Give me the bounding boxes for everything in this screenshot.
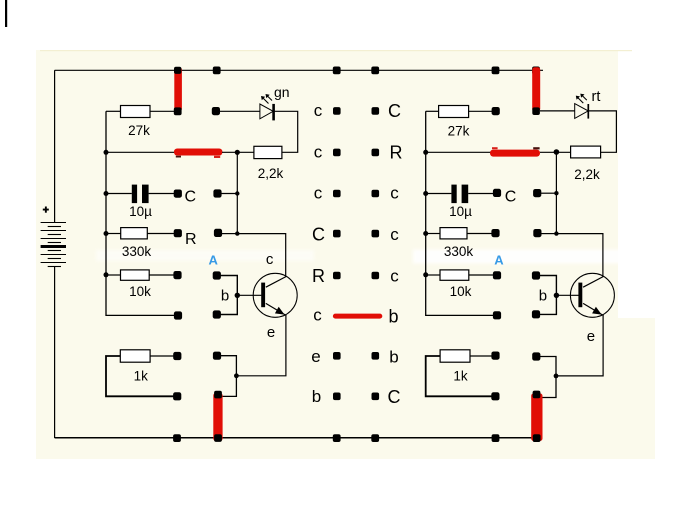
node dot row4 col B <box>214 229 222 237</box>
resistor 330k right lead <box>147 233 174 235</box>
capacitor 10u plates <box>132 185 137 204</box>
svg-text:c: c <box>390 267 399 286</box>
resistor 330k body <box>121 228 148 239</box>
svg-text:e: e <box>587 328 595 345</box>
svg-text:c: c <box>390 184 399 203</box>
node dot row6 col A (bus loop end) <box>174 311 182 319</box>
wire: left block bus (node A column feed) <box>106 111 174 315</box>
red jumper J7 (row8 to bottom rail right) <box>531 393 542 441</box>
node dot row1 col B <box>212 107 220 115</box>
transistor Q1 <box>253 273 297 317</box>
svg-text:rt: rt <box>592 89 601 105</box>
svg-text:10k: 10k <box>129 284 151 299</box>
red jumper J4 (middle row 6) <box>333 314 382 319</box>
junction node under 2,2k(2) left <box>554 149 560 155</box>
node dots on bottom rail <box>173 434 540 442</box>
svg-text:27k: 27k <box>448 124 470 139</box>
breadboard letters middle-right column <box>388 101 403 407</box>
LED D1 triangle <box>260 104 273 119</box>
junction row3 on column <box>235 191 239 195</box>
capacitor 10u left lead <box>106 193 132 195</box>
svg-text:c: c <box>314 143 323 162</box>
junction right bus row 3 <box>423 191 428 196</box>
junction on bus row 3 <box>104 191 109 196</box>
wire: 27k(2) left lead <box>426 110 439 112</box>
svg-text:27k: 27k <box>128 123 150 138</box>
LED D2 cathode bar <box>587 104 589 119</box>
wire: left rail upper (to battery +) <box>54 70 56 222</box>
node dot row3 col B <box>213 189 221 197</box>
resistor 10k left lead <box>106 274 121 276</box>
wire: row2 right bus to red jumper J6 <box>426 151 491 153</box>
wire: row4 col B to right junction column <box>541 233 556 235</box>
wire: LED rt cathode to drop <box>588 111 616 152</box>
node dot top of J7 <box>533 391 541 399</box>
wire: right junction column <box>555 152 557 233</box>
resistor 330k(2) left lead <box>426 233 440 235</box>
svg-text:c: c <box>314 184 323 203</box>
svg-text:10µ: 10µ <box>449 204 472 219</box>
svg-text:C: C <box>388 101 401 121</box>
junction right bus row 5 <box>423 272 428 277</box>
wire: row3 col B to right junction column <box>541 192 556 194</box>
node dot top of J1 <box>174 67 181 74</box>
resistor 330k(2) right lead <box>467 233 493 235</box>
wire: base lead Q1 <box>237 294 261 296</box>
LED D2 emission arrows <box>576 94 587 104</box>
svg-text:10k: 10k <box>450 284 472 299</box>
junction on bus row 4 <box>104 231 109 236</box>
junction base Q1 <box>235 293 240 298</box>
svg-text:330k: 330k <box>122 244 152 259</box>
svg-text:A: A <box>209 252 219 267</box>
LED D1 cathode bar <box>272 104 275 121</box>
red jumper J5 (top rail right) <box>532 67 540 111</box>
resistor 2,2k(2) body <box>571 146 601 158</box>
node dot bottom of J7 <box>533 434 541 442</box>
schematic paper area (ivory) <box>36 50 618 459</box>
capacitor 10u right lead <box>149 193 174 195</box>
wire: 27k left lead <box>106 110 121 112</box>
wire: base bracket Q2 <box>539 276 556 315</box>
wire: base bracket Q1 <box>220 276 237 315</box>
red jumper J6 (row 2 right horizontal) <box>490 150 540 157</box>
node dot row8 col A <box>173 392 181 400</box>
svg-text:330k: 330k <box>444 244 474 259</box>
node dot top of J3 <box>214 391 222 399</box>
LED D2 triangle <box>575 104 589 119</box>
resistor 330k(2) body <box>440 228 467 239</box>
node dot bottom of J1 <box>174 107 182 115</box>
svg-text:b: b <box>539 287 547 304</box>
node dots on top rail <box>213 67 540 75</box>
wire: 1k(2) right lead <box>470 355 494 357</box>
junction base Q2 <box>554 293 559 298</box>
node dot row4 col B right <box>533 229 541 237</box>
junction row4 right column <box>554 231 558 235</box>
svg-text:b: b <box>389 347 398 366</box>
LED D1 emission arrows <box>261 94 272 104</box>
node dot row5 col A right <box>493 271 501 279</box>
red jumper J2 (row 2 horizontal) <box>174 149 222 156</box>
svg-text:10µ: 10µ <box>129 204 152 219</box>
wire: 1k right lead <box>150 355 174 357</box>
node dot row3 col A <box>174 190 182 198</box>
wire: LED rt anode lead <box>540 110 575 112</box>
wire: LED cathode to drop <box>274 111 298 152</box>
wire: base lead Q2 <box>556 294 578 296</box>
resistor 330k left lead <box>106 233 121 235</box>
capacitor 10u(2) left lead <box>426 193 452 195</box>
wire: J2 to 2,2k left <box>222 151 254 153</box>
junction node under 2,2k left <box>235 150 240 155</box>
red jumper J3 (row8 to bottom rail) <box>213 393 222 441</box>
capacitor 10u(2) plates <box>451 185 456 204</box>
white erased band across row A <box>413 250 659 264</box>
node dot row5 col B <box>213 271 221 279</box>
svg-text:1k: 1k <box>453 369 468 384</box>
svg-text:C: C <box>505 189 517 206</box>
node dot row6 col A right <box>493 311 501 319</box>
J2 leg marks <box>176 156 181 158</box>
resistor 10k body <box>121 270 150 280</box>
svg-text:R: R <box>185 231 197 248</box>
svg-text:C: C <box>185 189 197 206</box>
svg-text:C: C <box>388 387 401 407</box>
junction on bus row 2 <box>104 150 109 155</box>
wire: LED gn anode lead <box>218 110 260 112</box>
svg-text:c: c <box>266 251 274 268</box>
wire: 27k(2) right lead <box>469 110 493 112</box>
svg-text:C: C <box>312 224 325 244</box>
resistor 27k body <box>121 106 151 118</box>
resistor 2,2k body <box>254 146 282 158</box>
junction on bus row 5 <box>104 272 109 277</box>
node dot row3 col A right <box>493 189 501 197</box>
svg-text:1k: 1k <box>134 369 149 384</box>
node dot row6 col B right <box>532 310 540 318</box>
wire: J6 to 2,2k(2) left <box>540 151 571 153</box>
battery B1 <box>41 223 66 267</box>
battery plus label <box>43 207 49 213</box>
svg-text:2,2k: 2,2k <box>258 166 284 181</box>
wire: row4 col B to junction column <box>222 233 237 235</box>
wire: collector feed Q2 <box>556 234 603 277</box>
red jumper J1 (top rail to row 1) <box>174 67 182 111</box>
svg-text:R: R <box>390 143 403 163</box>
resistor 27k(2) body <box>439 106 469 118</box>
node dot bottom of J3 <box>214 434 222 442</box>
svg-text:c: c <box>314 101 323 120</box>
wire: 1k loop left and bottom <box>106 356 174 396</box>
capacitor 10u(2) right lead <box>468 193 493 195</box>
node dot row1 col A right <box>492 107 500 115</box>
paper top edge line <box>40 50 632 51</box>
node dot row7 col A right <box>491 352 499 360</box>
node dot row7 col A <box>173 352 181 360</box>
svg-text:gn: gn <box>274 84 290 100</box>
wire: collector feed Q1 <box>237 234 285 277</box>
node dot row5 col B right <box>532 271 540 279</box>
node dot bottom of J5 <box>532 107 540 115</box>
node dot row7 col B right <box>532 352 540 360</box>
svg-text:e: e <box>267 324 275 341</box>
resistor 1k(2) body <box>440 350 470 362</box>
J6 leg marks <box>492 147 498 149</box>
node dot row6 col B <box>213 310 221 318</box>
wire: row 2 bus to red jumper J2 <box>106 151 175 153</box>
transistor Q2 <box>570 273 614 317</box>
wire: emitter Q1 down and to junction <box>236 316 286 376</box>
wire: 1k(2) loop left and bottom <box>426 356 494 396</box>
node dot row8 col A right <box>491 392 499 400</box>
node dot row4 col A <box>174 229 182 237</box>
wire: junction down to red jumper J7 <box>541 376 556 398</box>
node dot row4 col A right <box>491 229 499 237</box>
svg-text:2,2k: 2,2k <box>574 167 600 182</box>
junction emitter return <box>234 373 239 378</box>
svg-text:R: R <box>312 266 325 286</box>
wire: left rail lower (battery - to bottom rail) <box>54 267 56 439</box>
wire: bottom return rail <box>55 437 540 439</box>
wire: emitter Q2 down and to junction <box>556 316 603 376</box>
svg-text:c: c <box>313 306 322 325</box>
svg-text:b: b <box>221 287 229 304</box>
junction right bus row 2 <box>423 150 428 155</box>
resistor 1k body <box>120 350 150 362</box>
wire: 27k right lead to red jumper <box>150 110 175 112</box>
node dots middle column right (rows 1-8) <box>372 107 380 400</box>
wire: junction down to red jumper J3 <box>221 376 236 397</box>
node dot row5 col A <box>173 271 181 279</box>
wire: right block bus <box>426 111 494 315</box>
resistor 10k(2) body <box>440 270 469 280</box>
svg-text:e: e <box>311 347 320 366</box>
svg-text:b: b <box>312 387 321 406</box>
svg-text:b: b <box>388 307 398 327</box>
breadboard letters middle-left column <box>311 101 325 406</box>
stray mark top-left corner <box>5 0 7 27</box>
junction row3 right column <box>554 191 558 195</box>
wire: junction up to row7 col B right <box>540 357 556 376</box>
node dots middle column left (rows 1-8) <box>333 107 341 400</box>
svg-text:A: A <box>494 252 504 267</box>
node dot row7 col B <box>213 352 221 360</box>
wire: junction column (2,2k to rows 3,4) <box>236 152 238 233</box>
node dot row3 col B right <box>533 189 541 197</box>
wire: top supply rail <box>55 69 543 71</box>
junction emitter return right <box>554 374 559 379</box>
junction right bus row 4 <box>423 231 428 236</box>
svg-text:c: c <box>390 225 399 244</box>
junction row4 on column <box>235 231 239 235</box>
resistor 10k(2) left lead <box>426 274 440 276</box>
wire: row3 col B to junction column <box>221 193 237 195</box>
resistor 10k(2) right lead <box>469 274 494 276</box>
wire: junction up to row7 col B <box>220 356 236 376</box>
resistor 10k right lead <box>149 274 174 276</box>
